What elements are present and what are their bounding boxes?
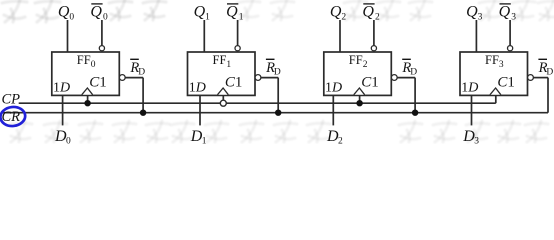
wire R̅D horizontal FF0 xyxy=(125,77,143,79)
wire Q3 output xyxy=(475,20,477,52)
svg-text:0: 0 xyxy=(66,136,71,144)
svg-text:3: 3 xyxy=(478,13,483,23)
svg-text:1D: 1D xyxy=(53,80,70,95)
label Q̅0 xyxy=(91,3,102,5)
inversion bubble on Q̅2 (top edge) xyxy=(371,46,376,51)
wire clock stub FF2 xyxy=(359,95,361,103)
clock edge triangle FF2 xyxy=(354,88,365,95)
svg-text:1D: 1D xyxy=(325,80,342,95)
wire Q̅3 output xyxy=(509,20,511,46)
junction dot CP / FF0 clock xyxy=(84,100,90,106)
svg-text:D: D xyxy=(138,68,145,78)
clock edge triangle FF3 xyxy=(490,88,501,95)
svg-text:0: 0 xyxy=(69,13,74,23)
clock edge triangle FF0 xyxy=(82,88,93,95)
wire Q̅1 output xyxy=(237,20,239,46)
wire CP bus xyxy=(19,102,496,104)
svg-text:Q: Q xyxy=(90,4,102,21)
wire D1 input xyxy=(199,95,201,125)
open junction bubble on CP at FF1 clock xyxy=(220,100,226,106)
wire R̅D horizontal FF2 xyxy=(397,77,415,79)
svg-text:2: 2 xyxy=(375,13,380,23)
label Q̅1 xyxy=(227,3,238,5)
svg-text:D: D xyxy=(546,68,553,78)
inversion bubble on R̅D input (right edge FF2) xyxy=(391,75,397,81)
wire D0 input xyxy=(62,95,64,125)
label Q̅3 xyxy=(500,3,511,5)
svg-text:CP: CP xyxy=(2,92,21,108)
svg-text:2: 2 xyxy=(338,136,343,144)
label R̅D FF1 xyxy=(266,58,275,60)
flip-flop FF2 box xyxy=(324,52,392,95)
svg-text:D: D xyxy=(274,68,281,78)
inversion bubble on Q̅1 (top edge) xyxy=(235,46,240,51)
wire R̅D drop FF2 xyxy=(414,78,416,113)
wire Q1 output xyxy=(203,20,205,52)
svg-text:1: 1 xyxy=(205,13,210,23)
inversion bubble on R̅D input (right edge FF3) xyxy=(528,75,534,81)
label R̅D FF3 xyxy=(538,58,547,60)
junction dot CR / R̅D FF1 xyxy=(275,110,281,116)
inversion bubble on R̅D input (right edge FF1) xyxy=(255,75,261,81)
svg-text:1D: 1D xyxy=(189,80,206,95)
svg-text:0: 0 xyxy=(103,13,108,23)
flip-flop FF0 box xyxy=(52,52,120,95)
inversion bubble on Q̅0 (top edge) xyxy=(99,46,104,51)
svg-text:C1: C1 xyxy=(89,75,107,91)
junction dot CR / R̅D FF0 xyxy=(140,110,146,116)
clock edge triangle FF1 xyxy=(218,88,229,95)
wire CR bus (with overbar over CR label) xyxy=(1,112,548,114)
wire CP riser to FF3 clock (bus end) xyxy=(495,95,497,103)
flip-flop FF3 box xyxy=(460,52,528,95)
svg-text:1: 1 xyxy=(239,13,244,23)
label R̅D FF0 xyxy=(130,58,139,60)
blue ellipse annotation around CR xyxy=(0,106,26,127)
label R̅D FF2 xyxy=(402,58,411,60)
wire clock stub FF1 xyxy=(222,95,224,100)
wire R̅D drop FF3 xyxy=(547,78,549,113)
svg-text:2: 2 xyxy=(341,13,346,23)
junction dot CR / R̅D FF2 xyxy=(412,110,418,116)
wire Q2 output xyxy=(339,20,341,52)
wire Q̅2 output xyxy=(373,20,375,46)
svg-text:C1: C1 xyxy=(225,75,243,91)
wire D3 input xyxy=(471,95,473,125)
svg-text:Q: Q xyxy=(226,4,238,21)
svg-text:C1: C1 xyxy=(361,75,379,91)
flip-flop FF1 box xyxy=(188,52,256,95)
svg-text:3: 3 xyxy=(474,136,479,144)
svg-text:D: D xyxy=(410,68,417,78)
wire Q̅0 output xyxy=(101,20,103,46)
wire R̅D horizontal FF3 xyxy=(533,77,548,79)
svg-text:Q: Q xyxy=(58,4,70,21)
svg-text:Q: Q xyxy=(194,4,206,21)
wire R̅D horizontal FF1 xyxy=(261,77,278,79)
svg-text:1D: 1D xyxy=(461,80,478,95)
svg-text:Q: Q xyxy=(330,4,342,21)
svg-text:C1: C1 xyxy=(497,75,515,91)
junction dot CP / FF2 clock xyxy=(356,100,362,106)
svg-text:3: 3 xyxy=(511,13,516,23)
svg-text:Q: Q xyxy=(362,4,374,21)
svg-text:1: 1 xyxy=(202,136,207,144)
wire R̅D drop FF1 xyxy=(277,78,279,113)
wire Q0 output xyxy=(67,20,69,52)
svg-text:Q: Q xyxy=(466,4,478,21)
label Q̅2 xyxy=(363,3,374,5)
inversion bubble on Q̅3 (top edge) xyxy=(508,46,513,51)
wire R̅D drop FF0 xyxy=(142,78,144,113)
wire clock stub FF0 xyxy=(87,95,89,103)
svg-text:Q: Q xyxy=(499,4,511,21)
inversion bubble on R̅D input (right edge FF0) xyxy=(119,75,125,81)
wire D2 input xyxy=(332,95,334,125)
